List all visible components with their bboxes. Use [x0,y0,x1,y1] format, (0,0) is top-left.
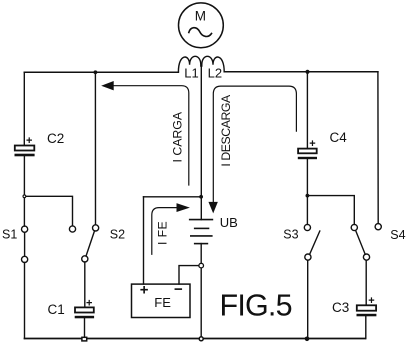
svg-text:I DESCARGA: I DESCARGA [219,94,233,167]
wire: top rail right [224,71,378,73]
switch mid-right contacts and blade [351,224,369,260]
junction at S2 top rail [94,70,98,74]
wire: C4 column from rail junction [306,72,308,149]
junction left branch (open) [23,195,26,198]
capacitor C1 [75,307,94,318]
wire: top rail left [24,71,178,73]
FE box [132,284,191,317]
wire: S3 bottom to rail [307,260,309,338]
wire: center tap from coils to battery [200,65,202,220]
wire: FE+ vertical [143,197,145,284]
inductor L1 [178,56,200,71]
svg-text:C4: C4 [330,130,348,145]
wire: branch to middle contact [24,196,72,226]
wire: S1 bottom to bottom rail [24,263,26,339]
wire: branch right to middle contact [307,196,354,225]
svg-text:+: + [86,297,92,309]
contact for S1 throw [69,226,75,232]
battery UB [190,220,213,244]
wire: C2 to S1 with junction [23,156,25,226]
svg-text:S2: S2 [110,227,125,241]
svg-text:I FE: I FE [156,221,170,245]
motor M1 circle [179,3,224,48]
motor sine wave [189,28,212,37]
capacitor C4 [298,149,317,160]
inductor L2 [202,56,224,71]
switch S3 contacts and blade [304,224,320,260]
switch S2 contacts and blade [82,225,99,262]
junction S3 bottom rail [305,337,310,342]
junction at C4 top rail [305,70,309,74]
wire: FE- horizontal from junction [179,266,199,285]
wire: C1 to bottom rail [84,318,86,336]
wire: battery bottom to rail [200,244,202,339]
junction battery bottom (open) [199,263,204,268]
svg-text:+: + [309,138,315,150]
svg-text:I CARGA: I CARGA [171,111,185,162]
junction battery top [199,195,203,199]
svg-text:S1: S1 [2,227,17,241]
svg-text:+: + [140,282,149,299]
svg-text:FE: FE [154,295,171,310]
wire: S2 bottom to C1 [84,262,86,307]
svg-text:FIG.5: FIG.5 [220,289,292,323]
svg-text:C3: C3 [332,300,349,315]
junction C1 bottom rail (open square) [82,337,87,341]
svg-text:L1: L1 [184,66,198,81]
svg-text:−: − [174,281,183,298]
svg-text:S4: S4 [390,228,405,242]
capacitor C3 [357,305,377,316]
svg-text:S3: S3 [283,227,298,241]
svg-text:+: + [368,295,374,307]
switch S4 contact [375,224,381,230]
wire: C3 to rail [365,316,367,338]
wire: bottom rail [25,338,366,340]
wire: FE+ horizontal [144,196,202,198]
junction center bottom rail (open) [199,337,203,341]
wire: S2 column from rail [94,72,96,224]
svg-text:L2: L2 [208,66,222,81]
wire: left vertical to C2 [23,72,25,145]
svg-text:+: + [26,135,32,147]
capacitor C2 [15,146,35,157]
switch S1 contacts and blade [22,226,28,262]
wire: S4 column from rail corner [377,72,379,224]
arrow I FE [152,208,185,255]
svg-text:UB: UB [220,215,238,230]
wire: mid switch bottom to C3 [365,260,367,305]
arrow I CARGA [104,86,189,185]
junction right branch [306,194,310,198]
wire: C4 to S3 [306,159,308,224]
svg-text:C1: C1 [48,302,65,317]
svg-text:M: M [195,9,206,24]
arrow I DESCARGA [213,86,296,211]
svg-text:C2: C2 [47,131,64,146]
